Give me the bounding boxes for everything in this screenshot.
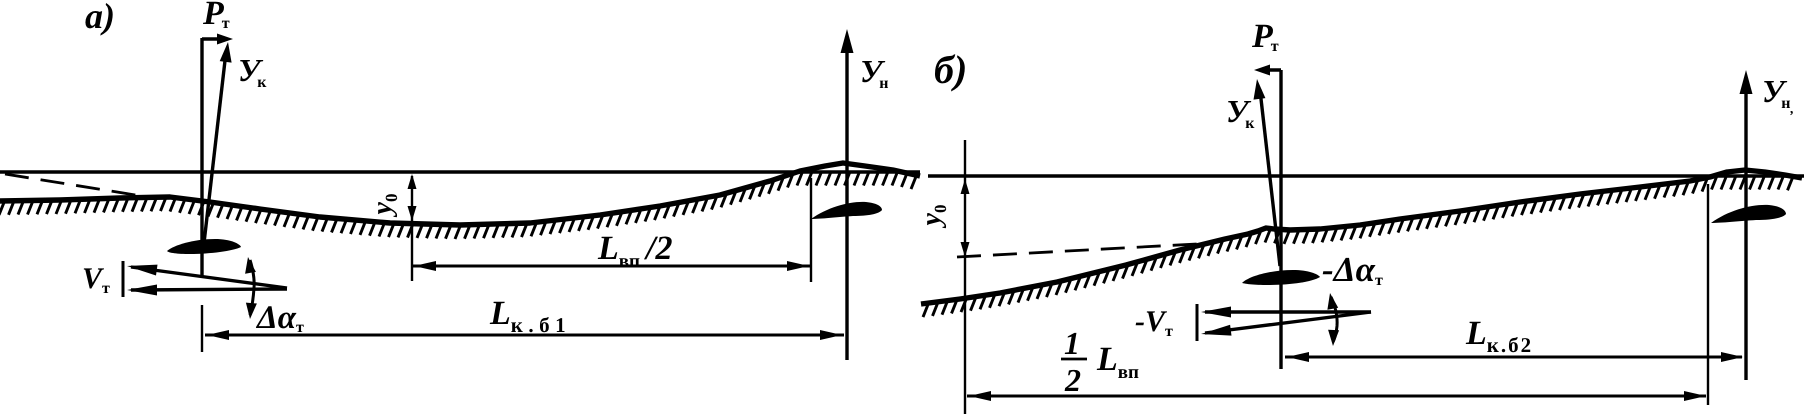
svg-text:а): а) — [85, 0, 115, 36]
svg-text:1: 1 — [1064, 325, 1080, 361]
svg-text:б): б) — [934, 47, 967, 92]
svg-text:-Δαт: -Δαт — [1322, 250, 1383, 289]
svg-text:2: 2 — [1064, 362, 1081, 398]
